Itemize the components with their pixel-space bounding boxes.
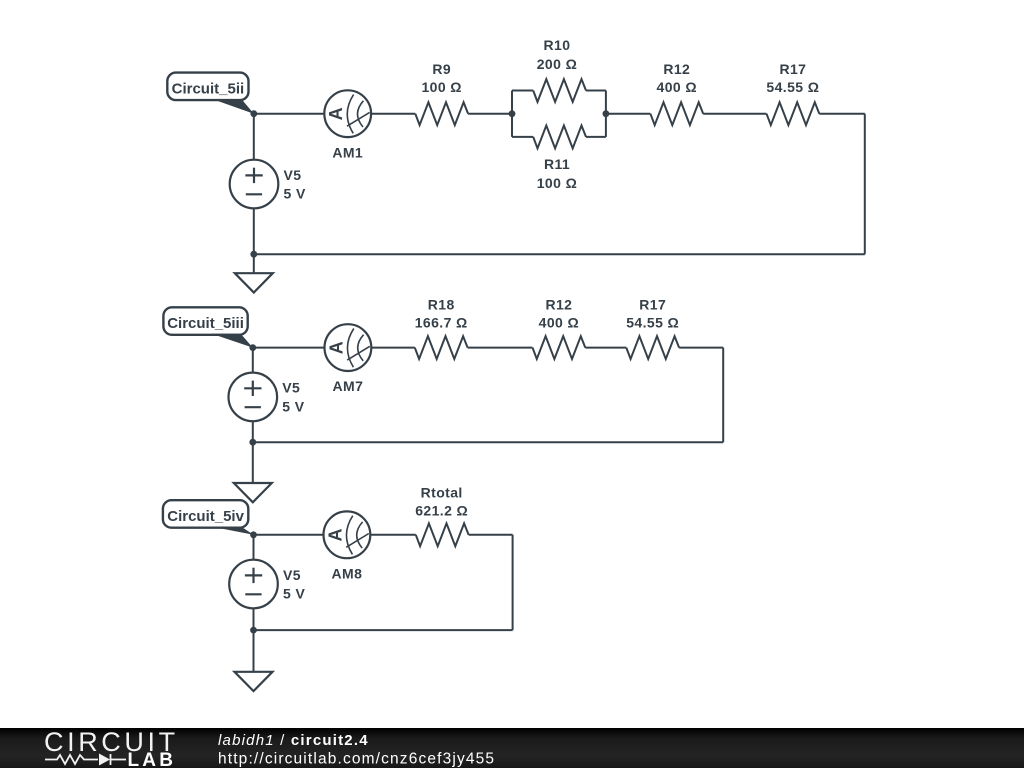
svg-text:http://circuitlab.com/cnz6cef3: http://circuitlab.com/cnz6cef3jy455	[218, 751, 495, 768]
node Circuit_5iv node	[250, 531, 257, 538]
svg-text:Circuit_5iii: Circuit_5iii	[167, 315, 244, 332]
svg-text:V5: V5	[283, 567, 301, 583]
logo resistor-diode glyph	[45, 754, 126, 765]
wire	[864, 114, 866, 255]
wire	[468, 113, 512, 115]
ammeter AM1	[324, 90, 371, 137]
wire	[722, 348, 724, 443]
wire	[253, 630, 255, 672]
svg-text:labidh1 / circuit2.4: labidh1 / circuit2.4	[218, 732, 369, 749]
wire	[605, 91, 607, 137]
svg-text:A: A	[326, 107, 346, 120]
resistor R18	[415, 336, 468, 359]
resistor R9	[415, 102, 468, 125]
wire	[585, 347, 626, 349]
wire	[253, 114, 255, 160]
wire	[254, 534, 324, 536]
wire	[468, 347, 533, 349]
wire	[371, 113, 415, 115]
wire	[370, 534, 416, 536]
svg-text:5 V: 5 V	[282, 399, 304, 415]
svg-text:R10: R10	[544, 37, 571, 53]
svg-text:R18: R18	[428, 296, 455, 312]
node circuit3 bottom	[250, 627, 257, 634]
ground	[234, 483, 272, 502]
svg-text:V5: V5	[282, 380, 300, 396]
svg-text:5 V: 5 V	[283, 586, 305, 602]
ammeter AM7	[325, 324, 372, 371]
wire	[254, 113, 324, 115]
wire	[252, 442, 254, 483]
svg-text:R17: R17	[779, 61, 806, 77]
wire	[254, 253, 865, 255]
resistor R12	[533, 336, 586, 359]
ground	[235, 273, 273, 292]
wire	[371, 347, 415, 349]
wire	[586, 90, 606, 92]
svg-text:54.55 Ω: 54.55 Ω	[766, 79, 819, 95]
voltage source V5	[229, 373, 278, 422]
wire	[253, 347, 325, 349]
svg-text:5 V: 5 V	[284, 186, 306, 202]
svg-text:200 Ω: 200 Ω	[537, 56, 577, 72]
svg-text:R17: R17	[639, 296, 666, 312]
svg-text:AM1: AM1	[332, 144, 363, 160]
svg-text:R9: R9	[432, 61, 451, 77]
net flag Circuit_5iii	[163, 307, 247, 335]
wire	[254, 629, 513, 631]
wire	[512, 535, 514, 630]
svg-text:Rtotal: Rtotal	[421, 484, 463, 500]
wire	[253, 441, 723, 443]
resistor Rtotal	[416, 523, 469, 546]
svg-text:621.2 Ω: 621.2 Ω	[415, 502, 468, 518]
svg-text:54.55 Ω: 54.55 Ω	[626, 314, 679, 330]
wire	[253, 254, 255, 273]
wire	[512, 90, 533, 92]
resistor R17	[626, 336, 679, 359]
voltage source V5	[230, 160, 279, 209]
svg-text:V5: V5	[284, 167, 302, 183]
svg-text:400 Ω: 400 Ω	[539, 314, 579, 330]
svg-text:166.7 Ω: 166.7 Ω	[415, 314, 468, 330]
wire	[512, 136, 533, 138]
resistor R12	[650, 102, 703, 125]
wire	[253, 535, 255, 560]
svg-text:Circuit_5ii: Circuit_5ii	[172, 80, 245, 97]
node circuit1 bottom	[250, 251, 257, 258]
wire	[679, 347, 723, 349]
wire	[253, 208, 255, 254]
svg-text:AM8: AM8	[332, 565, 363, 581]
wire	[252, 348, 254, 373]
svg-text:A: A	[326, 341, 346, 354]
svg-text:R11: R11	[544, 156, 570, 172]
svg-text:400 Ω: 400 Ω	[657, 79, 697, 95]
wire	[469, 534, 513, 536]
ammeter AM8	[324, 511, 371, 558]
svg-text:A: A	[325, 529, 345, 542]
node Circuit_5iii node	[249, 344, 256, 351]
node parallel left junction	[509, 110, 516, 117]
svg-text:AM7: AM7	[333, 378, 364, 394]
node circuit2 bottom	[249, 439, 256, 446]
wire	[253, 608, 255, 630]
net flag Circuit_5iv	[163, 500, 248, 528]
svg-text:R12: R12	[545, 296, 572, 312]
wire	[252, 421, 254, 442]
resistor R10	[533, 79, 586, 102]
svg-text:R12: R12	[663, 61, 690, 77]
node Circuit_5ii node	[250, 110, 257, 117]
svg-text:Circuit_5iv: Circuit_5iv	[167, 508, 244, 525]
wire	[606, 113, 651, 115]
wire	[586, 136, 606, 138]
wire	[511, 91, 513, 137]
wire	[819, 113, 865, 115]
node parallel right junction	[603, 110, 610, 117]
svg-text:100 Ω: 100 Ω	[537, 175, 577, 191]
ground	[235, 672, 273, 691]
wire	[703, 113, 766, 115]
voltage source V5	[229, 560, 278, 609]
svg-text:LAB: LAB	[128, 750, 177, 768]
net flag Circuit_5ii	[167, 73, 248, 101]
resistor R11	[533, 126, 586, 149]
resistor R17	[767, 102, 820, 125]
svg-text:100 Ω: 100 Ω	[421, 79, 461, 95]
